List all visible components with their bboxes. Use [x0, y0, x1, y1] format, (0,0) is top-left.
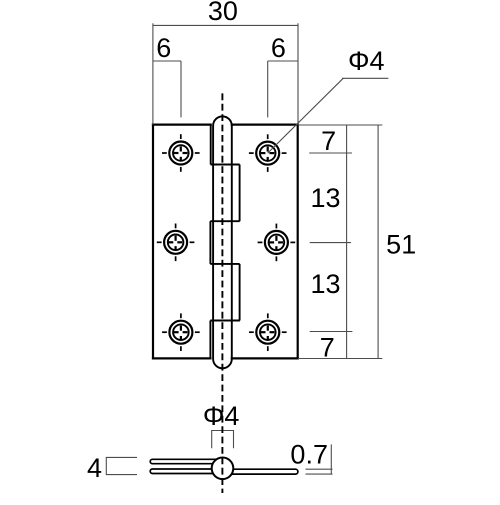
screw hole bottom-left: [162, 313, 200, 351]
thickness 0.7 dimension lines: [306, 444, 333, 474]
screw hole top-left: [162, 134, 200, 172]
knuckle K4 right edge: [239, 264, 241, 321]
bottom section: left leaf upper bar: [150, 459, 224, 463]
right side dimension lines 7/13/13/7 and 51: [298, 125, 383, 359]
bottom section: pin circle: [212, 458, 234, 480]
dimension 30 lines: [153, 23, 298, 124]
thickness 4 bracket (bottom left): [106, 457, 137, 474]
screw hole top-right: [249, 134, 287, 172]
svg-text:Φ4: Φ4: [203, 401, 240, 431]
knuckle K2 right edge: [239, 165, 241, 222]
leader line for top hole diameter: [268, 78, 389, 153]
hinge pin capsule (front view): [213, 116, 232, 368]
screw hole mid-right: [258, 224, 296, 262]
knuckle break lines: [210, 165, 240, 321]
svg-text:6: 6: [156, 33, 171, 63]
dimension 6 lines: [153, 61, 298, 117]
svg-text:30: 30: [208, 0, 238, 26]
phi4 bracket (bottom): [212, 431, 234, 449]
svg-text:Φ4: Φ4: [348, 46, 385, 76]
knuckle K5 left edge: [209, 321, 211, 359]
vertical dashed centerline: [221, 93, 223, 493]
svg-text:51: 51: [386, 230, 416, 260]
bottom section: left leaf lower bar: [150, 469, 224, 474]
knuckle K3 left edge: [209, 221, 211, 264]
svg-text:7: 7: [321, 126, 336, 156]
svg-text:13: 13: [310, 183, 340, 213]
screw hole mid-left: [157, 224, 195, 262]
knuckle K1 left edge: [210, 125, 212, 165]
svg-text:0.7: 0.7: [290, 439, 328, 469]
svg-text:4: 4: [87, 453, 102, 483]
svg-text:6: 6: [271, 33, 286, 63]
svg-text:7: 7: [320, 333, 335, 363]
screw hole bottom-right: [249, 313, 287, 351]
bottom section: right leaf bar: [221, 469, 298, 474]
svg-text:13: 13: [310, 269, 340, 299]
hinge plate outline (front view): [153, 125, 298, 359]
